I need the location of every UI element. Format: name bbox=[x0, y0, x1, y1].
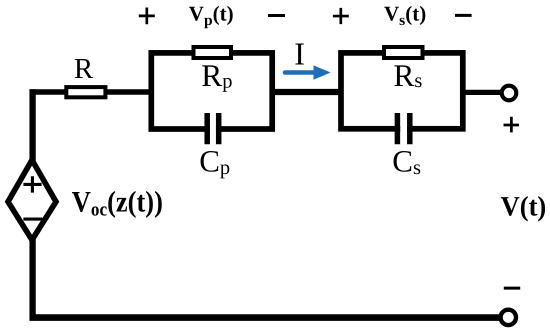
RC box 2 outline bbox=[341, 53, 463, 129]
capacitor Cs gap in box edge bbox=[400, 123, 407, 135]
resistor Rp on top edge of box 1 bbox=[194, 47, 232, 58]
svg-text:R: R bbox=[74, 53, 94, 85]
current arrow (blue) bbox=[285, 70, 317, 75]
resistor R bbox=[66, 87, 105, 97]
svg-text:Voc(z(t)): Voc(z(t)) bbox=[72, 185, 163, 219]
wire: source bottom to bottom rail bbox=[29, 240, 35, 321]
resistor Rs on top edge of box 2 bbox=[384, 47, 423, 58]
minus sign inside source bbox=[23, 218, 42, 221]
svg-text:V(t): V(t) bbox=[501, 191, 547, 222]
wire: top-left horizontal segment from node corner to resistor R bbox=[30, 89, 69, 95]
wire: box1 to box2 with current bbox=[272, 89, 341, 95]
plus sign inside source bbox=[23, 176, 41, 192]
RC box 1 outline bbox=[151, 53, 272, 129]
wire: left vertical from top corner down to source top bbox=[29, 89, 35, 161]
capacitor Cp plates bbox=[207, 113, 219, 144]
capacitor Cp gap in box edge bbox=[210, 123, 216, 135]
wire: box2 to positive terminal bbox=[463, 90, 501, 95]
label + for Vp bbox=[139, 8, 155, 25]
capacitor Cs plates bbox=[397, 113, 409, 144]
positive terminal circle bbox=[502, 86, 517, 101]
wire: resistor R to parallel box 1 bbox=[104, 89, 153, 95]
svg-text:I: I bbox=[294, 35, 305, 71]
svg-text:Vs(t): Vs(t) bbox=[384, 2, 426, 29]
label + at output terminal bbox=[504, 117, 520, 133]
label minus at output terminal bbox=[504, 287, 520, 290]
negative terminal circle bbox=[501, 310, 516, 325]
label minus for Vs bbox=[455, 14, 472, 17]
label + for Vs bbox=[333, 8, 349, 24]
voltage source Voc diamond bbox=[8, 160, 56, 240]
label minus for Vp bbox=[268, 14, 285, 17]
wire: bottom rail bbox=[30, 314, 501, 321]
